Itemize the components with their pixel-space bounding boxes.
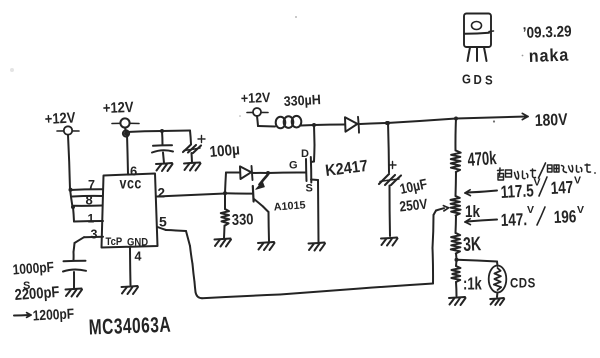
svg-text:+12V: +12V: [241, 89, 271, 106]
svg-text:3K: 3K: [463, 233, 483, 256]
svg-text:CDS: CDS: [510, 276, 536, 291]
svg-text:MC34063A: MC34063A: [88, 312, 171, 339]
svg-text:S: S: [306, 183, 313, 195]
svg-text:D: D: [474, 72, 483, 87]
svg-text:S: S: [485, 73, 493, 88]
svg-text:+12V: +12V: [103, 98, 135, 116]
svg-text:’09.3.29: ’09.3.29: [523, 24, 572, 43]
svg-text:1200pF: 1200pF: [32, 305, 74, 323]
svg-text:2: 2: [158, 186, 166, 201]
svg-text:V: V: [527, 204, 534, 216]
svg-text:TcP: TcP: [106, 236, 123, 248]
svg-text:2200pF: 2200pF: [14, 284, 60, 304]
svg-text:V: V: [577, 204, 584, 216]
svg-text:A1015: A1015: [273, 199, 306, 213]
svg-text:1k: 1k: [465, 203, 480, 222]
svg-text:180V: 180V: [535, 111, 569, 131]
svg-text:G: G: [462, 72, 471, 87]
svg-text:147: 147: [550, 178, 574, 198]
svg-text:+12V: +12V: [44, 109, 76, 128]
svg-text:6: 6: [130, 164, 137, 179]
svg-text:K2417: K2417: [324, 157, 369, 180]
svg-text:330µH: 330µH: [283, 92, 321, 110]
svg-text:196: 196: [553, 208, 576, 228]
svg-text:4: 4: [135, 250, 142, 264]
svg-text:G: G: [289, 160, 298, 172]
svg-text:V: V: [574, 175, 581, 187]
svg-text:D: D: [301, 148, 309, 160]
svg-text:117.5: 117.5: [500, 182, 534, 203]
svg-text:GND: GND: [127, 237, 148, 249]
svg-text:147.: 147.: [500, 211, 527, 231]
svg-text:100µ: 100µ: [209, 142, 241, 162]
svg-text:330: 330: [232, 211, 254, 229]
svg-text::1k: :1k: [463, 275, 482, 294]
svg-text:naka: naka: [528, 45, 569, 66]
svg-text:250V: 250V: [399, 196, 429, 215]
svg-text:1000pF: 1000pF: [12, 259, 54, 278]
svg-text:3: 3: [91, 228, 98, 242]
svg-text:470k: 470k: [467, 148, 498, 171]
svg-text:10µF: 10µF: [398, 176, 428, 198]
svg-text:1: 1: [88, 212, 95, 226]
